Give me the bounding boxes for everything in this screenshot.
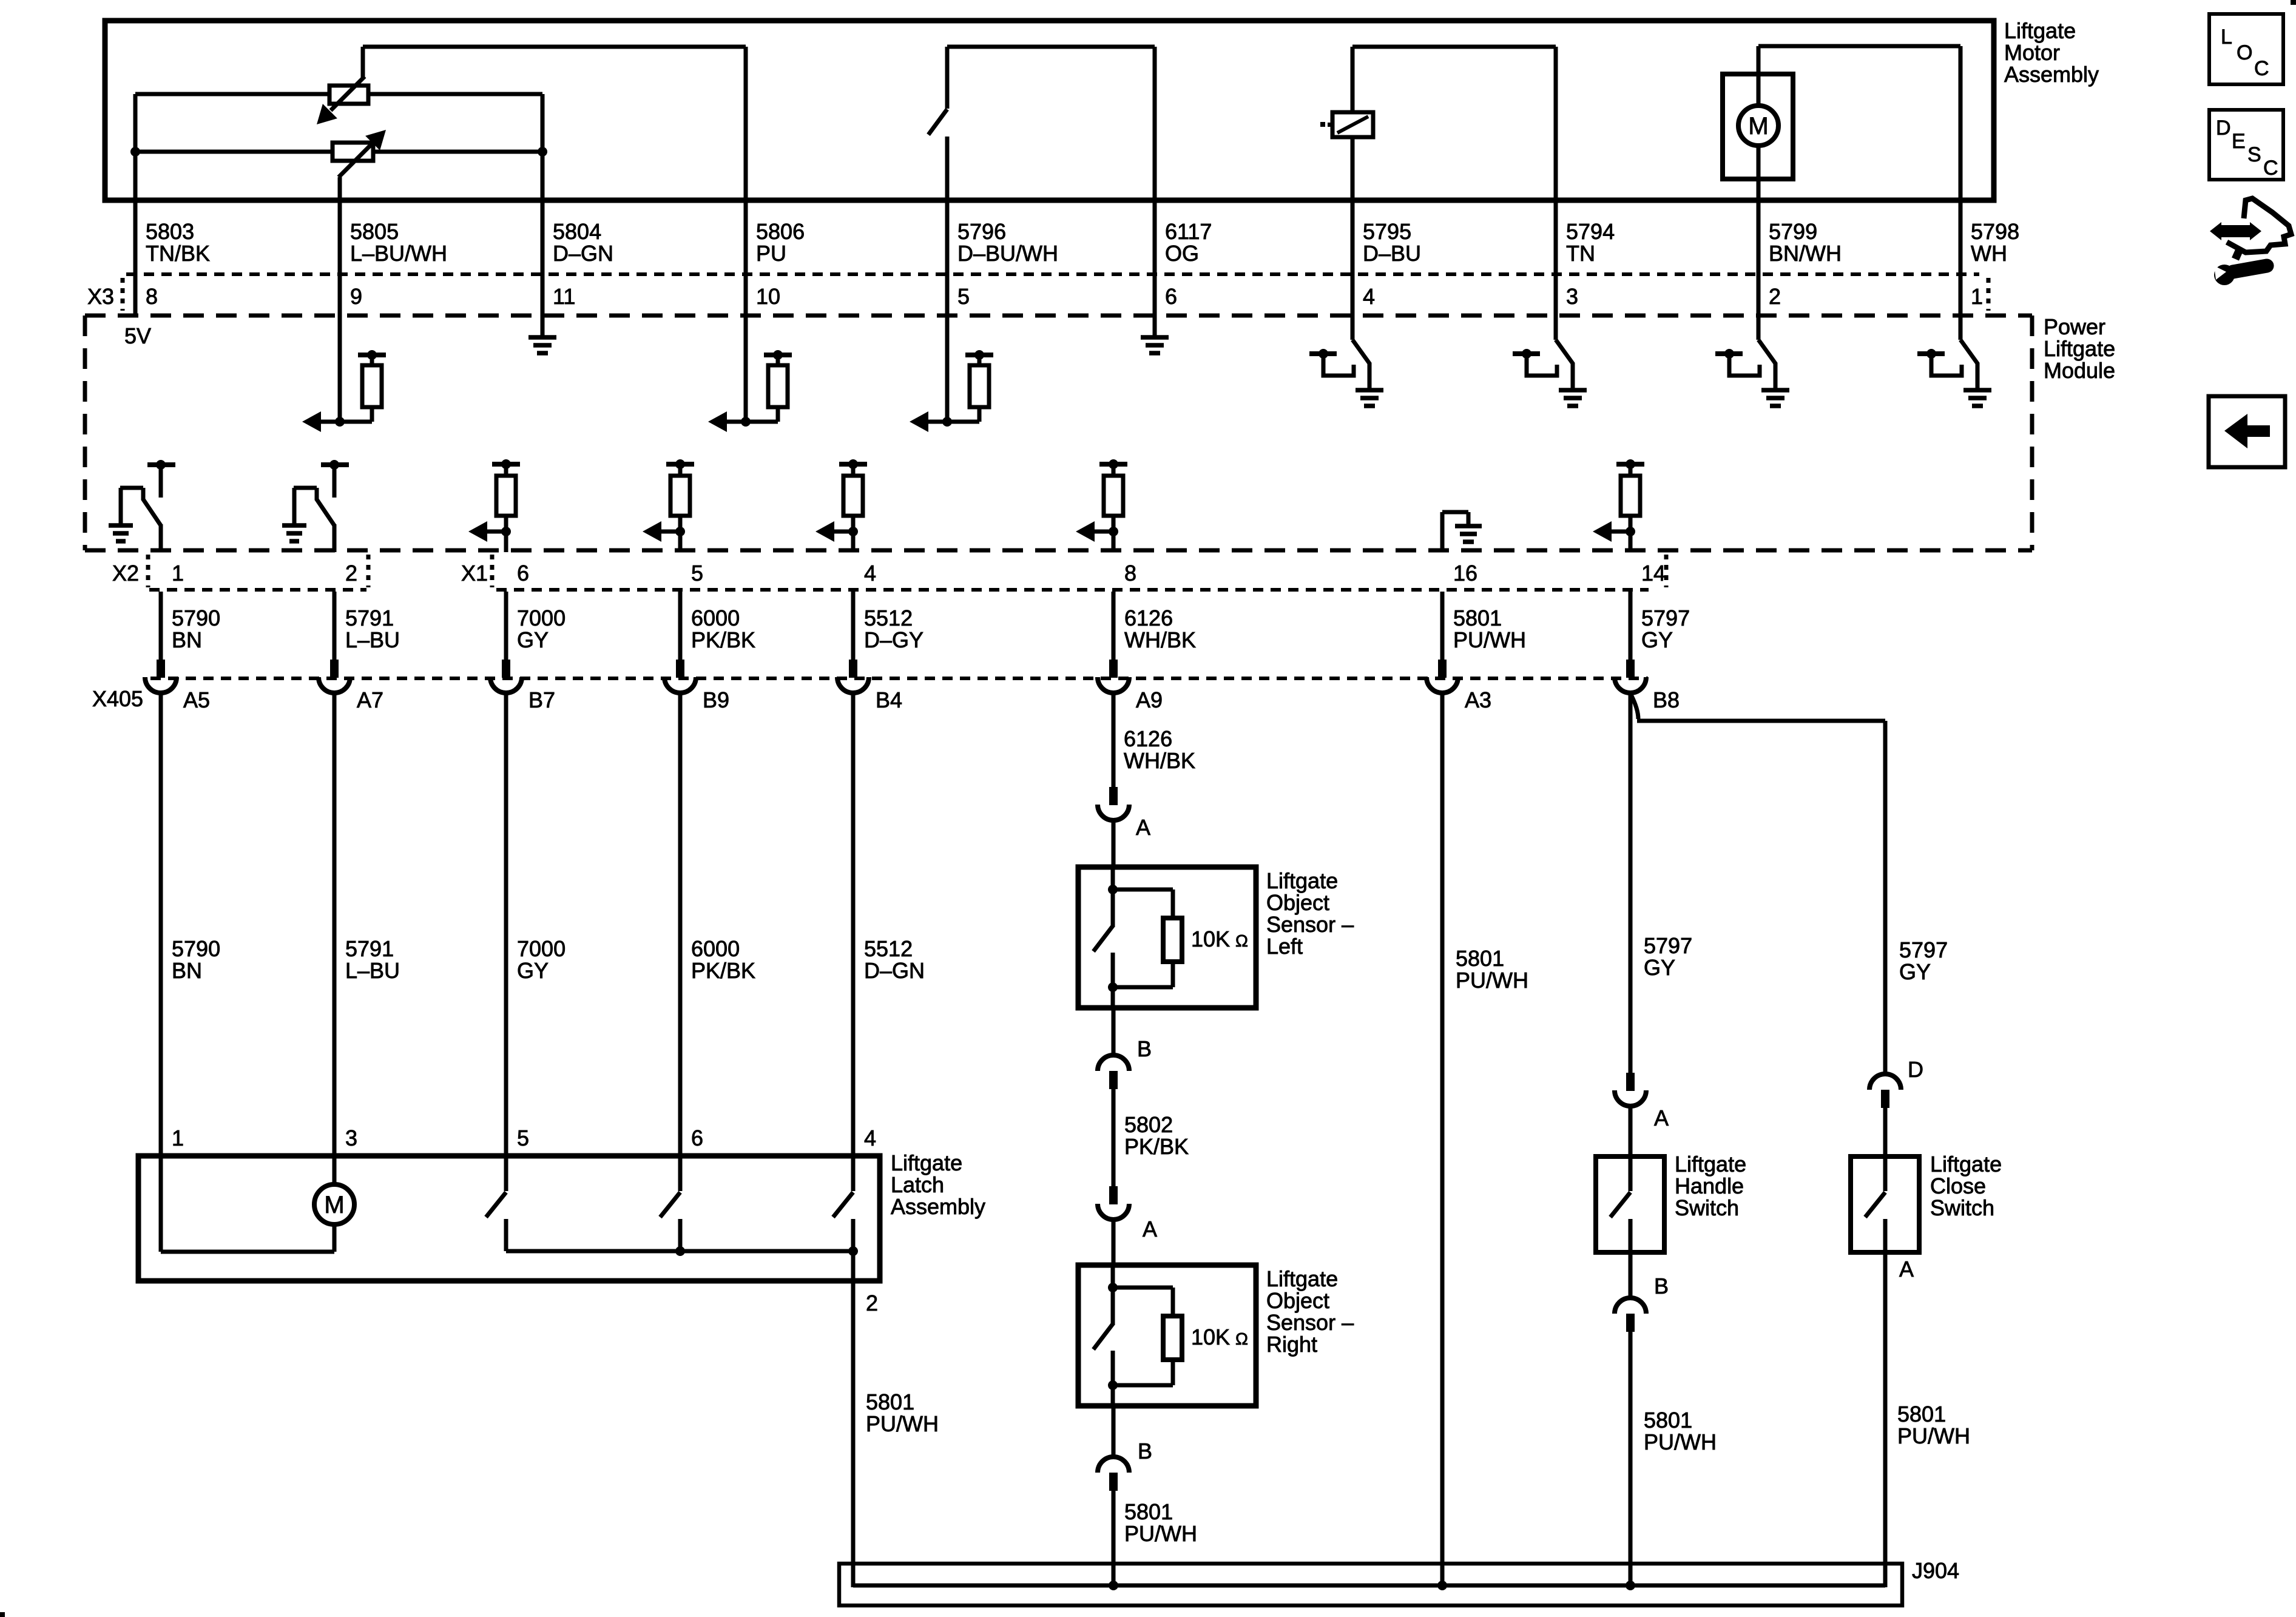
ground symbol module pin 11 <box>528 316 556 353</box>
wire 5801 PU/WH close to J904 <box>1883 1252 1888 1587</box>
ground symbol module pin 6 <box>1141 316 1169 353</box>
pin number 4 X1/X2 <box>864 561 876 586</box>
svg-text:Liftgate: Liftgate <box>1930 1152 2002 1176</box>
inline connector X405 pin B9 <box>664 660 729 712</box>
svg-text:WH/BK: WH/BK <box>1124 627 1196 652</box>
svg-text:Liftgate: Liftgate <box>2004 18 2076 43</box>
svg-text:O: O <box>2237 41 2252 64</box>
svg-text:PK/BK: PK/BK <box>691 627 755 652</box>
value label 10K ohm (Right) <box>1191 1325 1248 1349</box>
svg-text:M: M <box>324 1192 344 1218</box>
ground symbol module pin 16 <box>1442 512 1482 552</box>
wire 5797 GY from B8 <box>1629 692 1633 1073</box>
svg-text:B: B <box>1138 1439 1152 1463</box>
pin number 1 X3 <box>1971 284 1983 309</box>
svg-text:PK/BK: PK/BK <box>1124 1134 1189 1159</box>
svg-text:1: 1 <box>172 1126 184 1150</box>
svg-text:2: 2 <box>866 1291 878 1315</box>
Liftgate Close Switch label <box>1930 1152 2002 1220</box>
value label 10K ohm (Left) <box>1191 927 1248 951</box>
svg-text:X405: X405 <box>92 686 143 711</box>
Liftgate Close Switch box <box>1851 1156 1919 1252</box>
wire 6126 WH/BK to X405 A9 <box>1112 592 1116 660</box>
wire label 5801 PU/WH <box>1453 606 1526 652</box>
svg-text:5801: 5801 <box>1897 1402 1946 1426</box>
svg-text:8: 8 <box>146 284 158 309</box>
svg-text:Sensor –: Sensor – <box>1266 1310 1354 1335</box>
resistor pull-up + signal arrow, module output X1-14 <box>1593 459 1644 552</box>
back arrow icon box <box>2209 396 2285 467</box>
svg-text:PU/WH: PU/WH <box>1456 968 1528 993</box>
resistor pull-up + signal arrow, module input pin 5 <box>910 316 993 432</box>
connector view icon (double arrow with wrench) <box>2210 198 2291 285</box>
pin number 5 X1/X2 <box>691 561 703 586</box>
svg-text:5803: 5803 <box>146 219 194 244</box>
wire pin 11 branch <box>541 152 545 200</box>
svg-text:D–BU/WH: D–BU/WH <box>957 241 1058 266</box>
svg-text:6000: 6000 <box>691 606 740 630</box>
wire coil to pin 3 <box>1352 47 1556 200</box>
wire label 6000 PK/BK <box>691 936 755 983</box>
wire 5790 BN to latch pin 1 <box>159 692 163 1156</box>
wire label 5797 GY (handle) <box>1644 933 1692 980</box>
svg-text:4: 4 <box>1363 284 1375 309</box>
svg-text:5790: 5790 <box>172 936 220 961</box>
resistor pull-up + signal arrow, module input pin 10 <box>708 316 792 432</box>
svg-text:10K: 10K <box>1191 927 1230 951</box>
wire 5801 PU/WH latch pin 2 to J904 <box>851 1251 856 1587</box>
svg-text:PU: PU <box>756 241 786 266</box>
latch switch pin 6 <box>660 1156 680 1251</box>
wire label 5512 D–GY <box>864 606 923 652</box>
wire label 6117 OG <box>1165 219 1212 266</box>
svg-text:5796: 5796 <box>957 219 1006 244</box>
connector X3 label <box>87 278 1988 311</box>
inline connector X405 pin B7 <box>490 660 555 712</box>
wire 5798 WH to X3 pin 1 <box>1959 200 1963 316</box>
wire 5799 BN/WH to X3 pin 2 <box>1757 200 1761 316</box>
svg-text:X1: X1 <box>461 561 488 586</box>
svg-text:Sensor –: Sensor – <box>1266 912 1354 937</box>
svg-text:5: 5 <box>957 284 970 309</box>
svg-text:8: 8 <box>1124 561 1136 586</box>
svg-text:5: 5 <box>517 1126 529 1150</box>
svg-text:A: A <box>1899 1257 1914 1281</box>
connector X405 label <box>92 686 143 711</box>
wire 6000 PK/BK to latch pin 6 <box>678 692 683 1156</box>
variable resistor (position sensor) lower <box>333 130 386 177</box>
svg-text:Right: Right <box>1266 1332 1317 1357</box>
Liftgate Latch Assembly box <box>138 1156 880 1281</box>
Liftgate Handle Switch box <box>1596 1156 1664 1252</box>
svg-text:Liftgate: Liftgate <box>2044 336 2115 361</box>
svg-text:6: 6 <box>691 1126 703 1150</box>
wire 7000 GY to latch pin 5 <box>504 692 508 1156</box>
splice pack J904 box <box>839 1564 1902 1605</box>
wire label 5802 PK/BK <box>1124 1112 1189 1159</box>
LOC icon box <box>2209 14 2283 84</box>
inline connector X405 pin A5 <box>145 660 210 712</box>
svg-text:B4: B4 <box>876 687 902 712</box>
latch pin number 6 <box>691 1126 703 1150</box>
svg-text:Liftgate: Liftgate <box>1266 868 1338 893</box>
resistor pull-up + signal arrow, module output X1-6 <box>468 459 520 552</box>
wire label 5805 L–BU/WH <box>350 219 447 266</box>
wire 5794 TN to X3 pin 3 <box>1554 200 1558 316</box>
pin number 8 X3 <box>146 284 158 309</box>
Liftgate Handle Switch switch <box>1610 1156 1630 1252</box>
wire 5512 D-GN to latch pin 4 <box>851 692 856 1156</box>
svg-text:5V: 5V <box>124 323 151 348</box>
wire 5805 L–BU/WH to X3 pin 9 <box>338 200 342 316</box>
connector X1 dotted line <box>496 588 1649 592</box>
svg-text:Object: Object <box>1266 890 1329 915</box>
wire label 5801 PU/WH (close) <box>1897 1402 1970 1448</box>
wire 5790 BN to X405 A5 <box>159 592 163 660</box>
resistor 10K ohm (Left) <box>1113 890 1182 987</box>
svg-text:5806: 5806 <box>756 219 805 244</box>
svg-text:D: D <box>2216 116 2231 140</box>
connector X2 label <box>112 555 368 587</box>
svg-text:A: A <box>1136 815 1150 840</box>
wire sensor right to connector B <box>1112 1406 1116 1459</box>
inline connector object sensor left pin A <box>1098 787 1150 840</box>
wire 6117 OG to X3 pin 6 <box>1153 200 1157 316</box>
wire label 5803 TN/BK <box>146 219 210 266</box>
svg-text:6126: 6126 <box>1124 606 1173 630</box>
wire pin 8 branch <box>133 94 138 200</box>
wire label 5801 PU/WH (sensor) <box>1124 1499 1197 1546</box>
pin number 6 X3 <box>1165 284 1177 309</box>
latch switch pin 4 <box>833 1156 853 1251</box>
svg-text:BN: BN <box>172 958 202 983</box>
svg-text:A3: A3 <box>1465 687 1491 712</box>
svg-text:L–BU: L–BU <box>345 627 400 652</box>
wire 5797 GY to X405 B8 <box>1629 592 1633 660</box>
svg-text:6117: 6117 <box>1165 219 1212 244</box>
Power Liftgate Module dashed box <box>85 316 2032 550</box>
svg-text:Ω: Ω <box>1235 1329 1248 1348</box>
wire label 5804 D–GN <box>553 219 613 266</box>
wire 5801 PU/WH to X405 A3 <box>1440 592 1445 660</box>
svg-text:6126: 6126 <box>1124 726 1172 751</box>
svg-text:D: D <box>1908 1057 1923 1082</box>
svg-text:PU/WH: PU/WH <box>1124 1521 1197 1546</box>
svg-text:Assembly: Assembly <box>2004 62 2099 87</box>
Liftgate Motor Assembly box <box>105 21 1994 200</box>
svg-text:A: A <box>1143 1217 1157 1241</box>
pin number 3 X3 <box>1566 284 1578 309</box>
svg-text:Ω: Ω <box>1235 931 1248 950</box>
latch pin number 3 <box>345 1126 357 1150</box>
wire into sensor left <box>1112 819 1116 867</box>
svg-text:5791: 5791 <box>345 606 394 630</box>
wire lower potentiometer right terminal <box>373 147 547 157</box>
svg-text:TN/BK: TN/BK <box>146 241 210 266</box>
svg-text:A5: A5 <box>183 687 210 712</box>
svg-text:5801: 5801 <box>866 1389 914 1414</box>
wire 7000 GY to X405 B7 <box>504 592 508 660</box>
svg-text:PU/WH: PU/WH <box>1897 1423 1970 1448</box>
svg-text:5797: 5797 <box>1644 933 1692 958</box>
inline connector X405 pin B8 <box>1615 660 1680 712</box>
svg-text:A7: A7 <box>357 687 383 712</box>
wire 6000 PK/BK to X405 B9 <box>678 592 683 660</box>
svg-text:5790: 5790 <box>172 606 220 630</box>
svg-text:X3: X3 <box>87 284 114 309</box>
page corner mark top right <box>2291 0 2296 5</box>
wire 5791 L-BU to latch pin 3 <box>333 692 337 1156</box>
svg-text:GY: GY <box>517 627 549 652</box>
splice pack J904 label <box>1912 1558 1959 1583</box>
Liftgate Object Sensor - Left box <box>1078 867 1256 1008</box>
Liftgate Close Switch switch <box>1865 1156 1885 1252</box>
driver switch to ground, module pin X2-1 <box>109 460 175 552</box>
svg-text:5512: 5512 <box>864 606 913 630</box>
wire 5801 PU/WH handle to J904 <box>1629 1332 1633 1585</box>
svg-text:B9: B9 <box>703 687 729 712</box>
svg-text:L–BU: L–BU <box>345 958 400 983</box>
svg-text:Liftgate: Liftgate <box>891 1150 962 1175</box>
svg-text:5791: 5791 <box>345 936 394 961</box>
Liftgate Object Sensor - Right label <box>1266 1266 1354 1357</box>
svg-text:A9: A9 <box>1136 687 1163 712</box>
wire label 5796 D–BU/WH <box>957 219 1058 266</box>
clutch coil solenoid <box>1320 47 1373 200</box>
svg-text:5805: 5805 <box>350 219 399 244</box>
pin number 5 X3 <box>957 284 970 309</box>
svg-text:9: 9 <box>350 284 362 309</box>
svg-text:5797: 5797 <box>1641 606 1690 630</box>
wire into handle switch <box>1629 1105 1633 1156</box>
svg-text:S: S <box>2247 143 2261 166</box>
pin number 2 X1/X2 <box>345 561 357 586</box>
wire label 5797 GY (close) <box>1899 937 1948 984</box>
wire motor to pin 1 <box>1758 46 1960 200</box>
svg-text:E: E <box>2232 130 2246 153</box>
Liftgate Object Sensor - Right box <box>1078 1265 1256 1406</box>
latch switch common wire <box>506 1246 858 1256</box>
wire 5791 L–BU to X405 A7 <box>333 592 337 660</box>
svg-text:2: 2 <box>345 561 357 586</box>
wire 5803 TN/BK to X3 pin 8 <box>133 200 138 316</box>
pin number 9 X3 <box>350 284 362 309</box>
svg-text:D–GN: D–GN <box>864 958 925 983</box>
resistor pull-up + signal arrow, module output X1-5 <box>643 459 694 552</box>
inline connector object sensor right pin A <box>1098 1186 1157 1241</box>
wire lower potentiometer left terminal <box>130 147 333 157</box>
pin number 14 X1/X2 <box>1641 561 1666 586</box>
wire handle switch to connector B <box>1629 1252 1633 1300</box>
svg-text:5795: 5795 <box>1363 219 1411 244</box>
svg-text:GY: GY <box>1899 959 1931 984</box>
liftgate ajar switch <box>928 47 947 200</box>
connector X2 dotted line <box>149 588 366 592</box>
inline connector object sensor right pin B <box>1098 1439 1152 1491</box>
svg-text:4: 4 <box>864 561 876 586</box>
liftgate motor M <box>1723 46 1793 200</box>
latch pin number 1 <box>172 1126 184 1150</box>
svg-text:5512: 5512 <box>864 936 913 961</box>
svg-text:6: 6 <box>1165 284 1177 309</box>
svg-text:5804: 5804 <box>553 219 601 244</box>
wire label 5790 BN <box>172 606 220 652</box>
close switch pin A label <box>1899 1257 1914 1281</box>
svg-text:WH/BK: WH/BK <box>1124 748 1195 773</box>
svg-text:OG: OG <box>1165 241 1199 266</box>
svg-text:GY: GY <box>517 958 549 983</box>
wire label 7000 GY <box>517 606 566 652</box>
wire 5512 D–GY to X405 B4 <box>851 592 856 660</box>
wire label 5791 L–BU <box>345 606 400 652</box>
svg-text:BN/WH: BN/WH <box>1769 241 1842 266</box>
svg-text:J904: J904 <box>1912 1558 1959 1583</box>
svg-text:D–BU: D–BU <box>1363 241 1421 266</box>
svg-text:PU/WH: PU/WH <box>866 1411 939 1436</box>
connector X1 label <box>461 555 1666 587</box>
driver switch to ground, module pin 4 <box>1309 316 1383 406</box>
object sensor switch (Left) <box>1093 867 1118 1008</box>
svg-text:5799: 5799 <box>1769 219 1817 244</box>
driver switch to ground, module pin 1 <box>1917 316 1991 406</box>
driver switch to ground, module pin X2-2 <box>282 460 349 552</box>
svg-text:4: 4 <box>864 1126 876 1150</box>
wire label 6126 WH/BK (below A9) <box>1124 726 1195 773</box>
svg-text:5: 5 <box>691 561 703 586</box>
svg-text:16: 16 <box>1453 561 1477 586</box>
object sensor switch (Right) <box>1093 1265 1118 1406</box>
svg-text:11: 11 <box>553 284 575 309</box>
pin number 11 X3 <box>553 284 575 309</box>
wire label 5801 PU/WH (handle) <box>1644 1408 1717 1454</box>
wire 5806 PU to X3 pin 10 <box>744 200 748 316</box>
svg-text:10K: 10K <box>1191 1325 1230 1349</box>
Liftgate Handle Switch label <box>1675 1152 1746 1220</box>
wire lower potentiometer wiper to pin 9 <box>338 177 342 200</box>
svg-text:Liftgate: Liftgate <box>1675 1152 1746 1176</box>
svg-text:Left: Left <box>1266 934 1303 959</box>
svg-text:Power: Power <box>2044 314 2105 339</box>
svg-text:Motor: Motor <box>2004 40 2060 65</box>
latch pin 2 number <box>866 1291 878 1315</box>
svg-text:B: B <box>1654 1274 1669 1298</box>
svg-text:14: 14 <box>1641 561 1666 586</box>
pin number 16 X1/X2 <box>1453 561 1477 586</box>
splice pack J904 bus wire <box>853 1581 1885 1590</box>
inline connector handle switch pin B <box>1615 1274 1669 1332</box>
DESC icon box <box>2209 110 2283 180</box>
svg-text:Liftgate: Liftgate <box>1266 1266 1338 1291</box>
pin number 4 X3 <box>1363 284 1375 309</box>
latch switch pin 5 <box>486 1156 506 1251</box>
inline connector X405 pin A3 <box>1427 660 1491 712</box>
svg-text:B8: B8 <box>1653 687 1680 712</box>
svg-text:BN: BN <box>172 627 202 652</box>
latch pin number 5 <box>517 1126 529 1150</box>
pin number 1 X1/X2 <box>172 561 184 586</box>
wire 5796 D–BU/WH to X3 pin 5 <box>945 200 950 316</box>
svg-text:Handle: Handle <box>1675 1173 1744 1198</box>
svg-text:GY: GY <box>1644 955 1675 980</box>
svg-text:7000: 7000 <box>517 936 566 961</box>
wire upper potentiometer left terminal <box>135 92 329 96</box>
inline connector X405 pin A9 <box>1098 660 1163 712</box>
wire label 5790 BN <box>172 936 220 983</box>
svg-text:Assembly: Assembly <box>891 1194 985 1219</box>
wire label 6000 PK/BK <box>691 606 755 652</box>
wire ajar switch to pin 6 <box>947 47 1155 200</box>
svg-text:A: A <box>1654 1106 1669 1130</box>
svg-text:5801: 5801 <box>1644 1408 1692 1433</box>
resistor pull-up + signal arrow, module output X1-4 <box>815 459 867 552</box>
svg-text:Switch: Switch <box>1675 1195 1739 1220</box>
variable resistor (position sensor) upper <box>317 47 368 124</box>
svg-text:M: M <box>1748 113 1768 140</box>
wire sensor left to connector B <box>1112 1008 1116 1057</box>
inline connector X405 pin B4 <box>837 660 902 712</box>
svg-text:PK/BK: PK/BK <box>691 958 755 983</box>
svg-text:5801: 5801 <box>1453 606 1502 630</box>
wire label 5801 PU/WH (latch) <box>866 1389 939 1436</box>
resistor pull-up + signal arrow, module output X1-8 <box>1076 459 1127 552</box>
svg-text:L–BU/WH: L–BU/WH <box>350 241 447 266</box>
connector X405 dotted line <box>150 677 1648 680</box>
node 5V label <box>124 323 151 348</box>
svg-text:B7: B7 <box>528 687 555 712</box>
svg-text:B: B <box>1137 1036 1152 1061</box>
wire label 5512 D-GN <box>864 936 925 983</box>
svg-text:D–GY: D–GY <box>864 627 923 652</box>
latch pin number 4 <box>864 1126 876 1150</box>
Liftgate Latch Assembly label <box>891 1150 985 1219</box>
inline connector close switch pin D <box>1869 1057 1923 1108</box>
wire 5804 D–GN to X3 pin 11 <box>541 200 545 316</box>
resistor pull-up + signal arrow, module input pin 9 <box>302 316 386 432</box>
Liftgate Motor Assembly label <box>2004 18 2099 87</box>
svg-text:Object: Object <box>1266 1288 1329 1313</box>
svg-text:6000: 6000 <box>691 936 740 961</box>
svg-text:GY: GY <box>1641 627 1673 652</box>
connector X3 dotted line <box>126 272 1979 276</box>
wire 5801 PU/WH A3 to J904 <box>1440 692 1445 1585</box>
svg-text:Switch: Switch <box>1930 1195 1994 1220</box>
svg-text:5802: 5802 <box>1124 1112 1173 1137</box>
svg-text:PU/WH: PU/WH <box>1644 1430 1717 1454</box>
pin number 2 X3 <box>1769 284 1781 309</box>
svg-text:3: 3 <box>345 1126 357 1150</box>
svg-text:5794: 5794 <box>1566 219 1615 244</box>
wire label 5791 L-BU <box>345 936 400 983</box>
svg-text:X2: X2 <box>112 561 139 586</box>
wire label 5797 GY <box>1641 606 1690 652</box>
pin number 10 X3 <box>756 284 780 309</box>
wire label 5798 WH <box>1971 219 2019 266</box>
svg-text:5801: 5801 <box>1456 946 1504 971</box>
svg-text:5798: 5798 <box>1971 219 2019 244</box>
wire label 5794 TN <box>1566 219 1615 266</box>
inline connector object sensor left pin B <box>1098 1036 1152 1089</box>
page corner mark bottom left <box>0 1612 5 1617</box>
svg-text:10: 10 <box>756 284 780 309</box>
svg-text:L: L <box>2221 25 2232 49</box>
svg-text:6: 6 <box>517 561 529 586</box>
wire 5795 D–BU to X3 pin 4 <box>1351 200 1355 316</box>
svg-text:PU/WH: PU/WH <box>1453 627 1526 652</box>
wire upper potentiometer right terminal <box>368 94 542 152</box>
Power Liftgate Module label <box>2044 314 2115 383</box>
wire upper potentiometer wiper loop to pin 10 <box>363 47 746 200</box>
svg-text:TN: TN <box>1566 241 1595 266</box>
